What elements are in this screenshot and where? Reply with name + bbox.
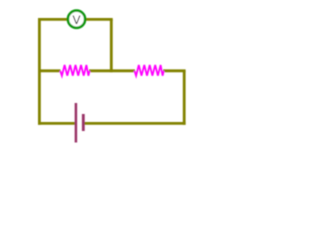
- wire top horizontal: [38, 18, 113, 21]
- wire bottom right of battery: [83, 122, 185, 125]
- battery B1 short plate: [82, 114, 85, 131]
- wire bottom left of battery: [38, 122, 76, 125]
- wire left vertical: [38, 18, 41, 125]
- svg-text:V: V: [72, 13, 80, 27]
- resistor R1: [60, 65, 89, 76]
- voltmeter V1 circle: [68, 11, 85, 28]
- resistor R2: [134, 65, 163, 76]
- wire right vertical: [183, 71, 186, 125]
- battery B1 long plate: [75, 103, 78, 143]
- wire top-right vertical: [110, 19, 113, 72]
- wire middle horizontal right of R2: [163, 69, 186, 72]
- wire middle horizontal between R1 and R2: [89, 69, 135, 72]
- wire middle horizontal left of R1: [38, 69, 61, 72]
